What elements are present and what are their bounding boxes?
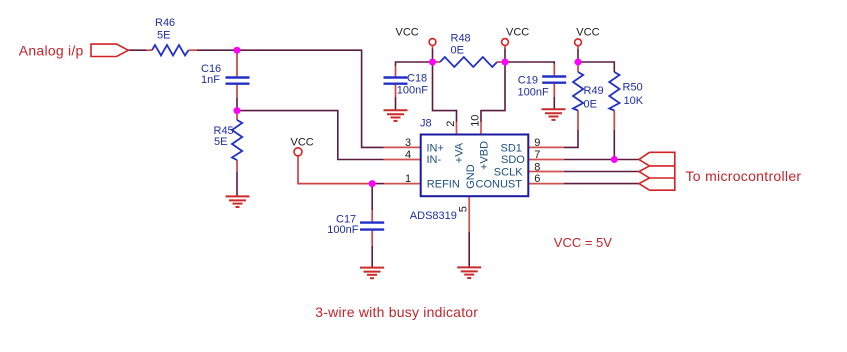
pin 9 stub bbox=[528, 146, 564, 148]
capacitor C16 bbox=[226, 78, 250, 84]
svg-text:IN-: IN- bbox=[427, 154, 442, 166]
pin 6 stub bbox=[528, 183, 564, 185]
capacitor C18 bbox=[384, 78, 408, 84]
svg-text:R46: R46 bbox=[155, 17, 175, 29]
wire pin6 to tag bbox=[564, 183, 639, 185]
resistor R48 bbox=[440, 57, 497, 67]
ground below C19 bbox=[542, 109, 566, 120]
svg-text:VCC: VCC bbox=[291, 137, 314, 149]
svg-text:5: 5 bbox=[457, 206, 469, 212]
svg-text:GND: GND bbox=[465, 164, 477, 189]
svg-text:+VBD: +VBD bbox=[479, 141, 491, 170]
pin 2 stub bbox=[456, 122, 458, 135]
svg-text:9: 9 bbox=[534, 137, 540, 149]
svg-text:ADS8319: ADS8319 bbox=[410, 210, 457, 222]
svg-text:CONUST: CONUST bbox=[476, 178, 523, 190]
junction node REFIN bbox=[369, 180, 376, 187]
pin 10 stub bbox=[480, 122, 482, 135]
wire C18 bottom to ground bbox=[395, 84, 397, 97]
svg-text:R48: R48 bbox=[451, 33, 471, 45]
wire REFIN node to C17 bbox=[371, 184, 373, 210]
op-amp U1 (IC J8 ADS8319 body) bbox=[421, 135, 529, 197]
svg-text:SCLK: SCLK bbox=[494, 167, 523, 179]
VCC symbol 3 bbox=[575, 39, 582, 46]
label C18 bbox=[397, 73, 428, 97]
connector tags to microcontroller bbox=[639, 152, 675, 190]
svg-text:4: 4 bbox=[405, 149, 411, 161]
svg-text:7: 7 bbox=[534, 149, 540, 161]
pin 8 stub bbox=[528, 171, 564, 173]
wire R45 to ground bbox=[236, 160, 238, 172]
pin 1 stub bbox=[384, 183, 421, 185]
wire node A2 to pin4 column bbox=[237, 111, 384, 160]
VCC symbol 2 bbox=[502, 39, 509, 46]
wire VCC4 to REFIN bbox=[298, 156, 372, 184]
ground below C17 bbox=[360, 268, 384, 279]
resistor R45 bbox=[232, 120, 242, 160]
label R46 bbox=[155, 17, 175, 42]
VCC symbol 1 bbox=[429, 39, 436, 46]
junction node B1 bbox=[429, 59, 436, 66]
label C17 bbox=[327, 214, 358, 237]
svg-text:Analog i/p: Analog i/p bbox=[19, 42, 84, 58]
capacitor C19 bbox=[542, 77, 566, 83]
pin 4 stub bbox=[384, 159, 421, 161]
svg-text:R49: R49 bbox=[584, 85, 604, 97]
svg-text:SD1: SD1 bbox=[501, 142, 522, 154]
wire node A1 to pin3 column bbox=[237, 50, 384, 147]
resistor R49 bbox=[573, 72, 583, 111]
svg-text:10: 10 bbox=[469, 115, 481, 127]
wire node B2 to pin10 bbox=[481, 62, 505, 122]
junction node D bbox=[611, 156, 618, 163]
svg-text:1nF: 1nF bbox=[201, 74, 220, 86]
capacitor C17 bbox=[360, 223, 384, 230]
wire node C to R49 bbox=[577, 62, 579, 72]
wire node B2 to C19 bbox=[505, 62, 554, 64]
resistor R50 bbox=[609, 72, 619, 111]
VCC symbol 4 bbox=[294, 148, 302, 156]
svg-text:6: 6 bbox=[534, 173, 540, 185]
wire VCC1 to node B1 bbox=[432, 46, 434, 49]
wire R48 right stub bbox=[497, 61, 505, 63]
label R49 bbox=[584, 85, 604, 111]
junction node B2 bbox=[502, 59, 509, 66]
svg-text:C19: C19 bbox=[518, 74, 538, 86]
svg-text:VCC: VCC bbox=[396, 27, 419, 39]
wire R46 to node A1 bbox=[197, 49, 237, 51]
pin 5 stub and wire to ground bbox=[468, 196, 470, 232]
wire VCC3 to node C bbox=[577, 46, 579, 49]
svg-text:To microcontroller: To microcontroller bbox=[686, 168, 802, 184]
svg-text:VCC = 5V: VCC = 5V bbox=[554, 235, 612, 250]
wire node A1 to C16 top bbox=[236, 50, 238, 77]
svg-text:REFIN: REFIN bbox=[427, 178, 460, 190]
svg-text:IN+: IN+ bbox=[427, 142, 444, 154]
wire node B1 to C18 bbox=[396, 62, 433, 66]
wire C16 bottom to node A2 bbox=[236, 84, 238, 98]
label R45 bbox=[214, 125, 234, 148]
svg-text:100nF: 100nF bbox=[518, 87, 549, 99]
svg-text:C18: C18 bbox=[407, 73, 427, 85]
wire pin8 to tag bbox=[564, 171, 639, 173]
ground below R45 bbox=[226, 196, 250, 207]
svg-text:10K: 10K bbox=[624, 95, 644, 107]
resistor R46 bbox=[146, 45, 197, 55]
label C16 bbox=[201, 63, 221, 86]
svg-text:VCC: VCC bbox=[576, 27, 599, 39]
svg-text:1: 1 bbox=[405, 173, 411, 185]
wire pin7 to tag bbox=[564, 159, 639, 161]
svg-text:J8: J8 bbox=[420, 117, 432, 129]
svg-text:R50: R50 bbox=[623, 82, 643, 94]
label C19 bbox=[518, 74, 549, 98]
svg-text:3: 3 bbox=[405, 137, 411, 149]
svg-text:5E: 5E bbox=[157, 30, 170, 42]
svg-text:100nF: 100nF bbox=[327, 224, 358, 236]
svg-text:100nF: 100nF bbox=[397, 85, 428, 97]
wire R48 left stub bbox=[433, 61, 441, 63]
wire R49 bottom to pin9 bbox=[577, 111, 579, 131]
svg-text:+VA: +VA bbox=[454, 142, 466, 163]
wire R50 bottom to node D bbox=[613, 111, 615, 131]
label R50 bbox=[623, 82, 644, 108]
wire node B1 to pin2 bbox=[433, 62, 457, 122]
wire node A2 to R45 bbox=[236, 111, 238, 120]
wire node C to R50 top bbox=[578, 62, 614, 72]
svg-text:SDO: SDO bbox=[501, 154, 525, 166]
wire VCC2 to node B2 bbox=[504, 46, 506, 49]
ground below pin5 bbox=[457, 267, 481, 278]
svg-text:0E: 0E bbox=[584, 99, 597, 111]
wire C17 bottom to ground bbox=[371, 230, 373, 246]
junction node A2 bbox=[234, 107, 241, 114]
pin 3 stub bbox=[384, 146, 421, 148]
label R48 bbox=[451, 33, 471, 57]
junction node C bbox=[575, 59, 582, 66]
connector tag Analog input bbox=[91, 44, 128, 56]
wire C19 bottom to ground bbox=[553, 83, 555, 97]
wire input tag to R46 bbox=[128, 49, 146, 51]
svg-text:8: 8 bbox=[534, 161, 540, 173]
svg-text:VCC: VCC bbox=[506, 27, 529, 39]
pin 7 stub bbox=[528, 159, 564, 161]
svg-text:2: 2 bbox=[445, 121, 457, 127]
svg-text:5E: 5E bbox=[214, 136, 227, 148]
ground below C18 bbox=[384, 110, 408, 121]
svg-text:0E: 0E bbox=[451, 44, 464, 56]
svg-text:3-wire with busy indicator: 3-wire with busy indicator bbox=[315, 304, 478, 320]
junction node A1 bbox=[234, 47, 241, 54]
